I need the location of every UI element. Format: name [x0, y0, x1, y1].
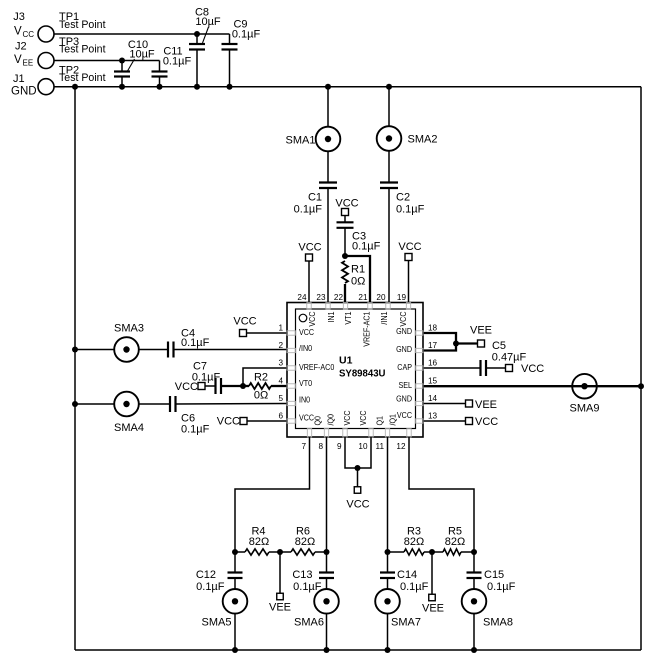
- svg-text:7: 7: [301, 442, 306, 451]
- power VCC at pins 9-10: [354, 487, 361, 494]
- capacitor C1 0.1uF: [327, 151, 329, 182]
- svg-text:GND: GND: [396, 344, 412, 354]
- svg-text:0Ω: 0Ω: [254, 390, 268, 402]
- svg-text:VCC: VCC: [299, 327, 314, 337]
- svg-text:VCC: VCC: [298, 242, 321, 254]
- svg-text:R1: R1: [351, 264, 365, 276]
- wire pin 8 down: [326, 437, 328, 552]
- node pins 17-18 junction: [453, 341, 459, 347]
- svg-text:R2: R2: [254, 372, 268, 384]
- U1 left pin numbers 1-6: [278, 324, 283, 421]
- svg-text:17: 17: [428, 341, 438, 350]
- node R6 right junction: [324, 549, 330, 555]
- svg-text:C13: C13: [292, 569, 312, 581]
- wire C4 to pin 2: [174, 349, 288, 351]
- svg-text:EE: EE: [23, 59, 34, 68]
- svg-text:VCC: VCC: [217, 416, 240, 428]
- resistor R5 82ohm: [443, 549, 461, 555]
- wire pin 12 to R5: [409, 437, 474, 552]
- node R1 top junction: [342, 253, 348, 259]
- op-amp U1 SY89843U body: [287, 303, 423, 438]
- svg-text:VEE: VEE: [475, 399, 497, 411]
- svg-text:VEE: VEE: [269, 602, 291, 614]
- svg-text:V: V: [14, 54, 22, 66]
- wire bottom GND rail: [75, 649, 641, 651]
- svg-text:9: 9: [337, 442, 342, 451]
- svg-text:C2: C2: [396, 192, 410, 204]
- svg-text:IN0: IN0: [299, 395, 310, 405]
- svg-text:0.1µF: 0.1µF: [232, 29, 261, 41]
- svg-text:VCC: VCC: [358, 410, 368, 425]
- svg-text:82Ω: 82Ω: [445, 536, 465, 548]
- svg-text:VCC: VCC: [521, 363, 544, 375]
- svg-text:VREF-AC0: VREF-AC0: [299, 362, 335, 372]
- power VEE below R3-R5: [431, 552, 433, 594]
- svg-text:14: 14: [428, 394, 438, 403]
- svg-text:SMA8: SMA8: [483, 617, 513, 629]
- svg-text:SMA5: SMA5: [202, 617, 232, 629]
- junction SMA9 right rail: [638, 383, 644, 389]
- wire VCC rail: [54, 33, 230, 35]
- svg-text:IN1: IN1: [326, 311, 336, 322]
- power VCC at pin 13: [423, 420, 466, 422]
- capacitor C13 0.1uF: [326, 552, 328, 573]
- wire pin 7 to R4: [235, 437, 310, 552]
- svg-text:C12: C12: [196, 569, 216, 581]
- svg-text:0.1µF: 0.1µF: [181, 424, 210, 436]
- wire C1 to pin 23: [327, 188, 329, 303]
- capacitor C5 0.47uF: [423, 367, 481, 369]
- svg-text:U1: U1: [339, 355, 353, 367]
- svg-text:J3: J3: [13, 11, 25, 23]
- svg-text:Test Point: Test Point: [59, 44, 106, 56]
- svg-text:0.1µF: 0.1µF: [352, 241, 381, 253]
- svg-text:VREF-AC1: VREF-AC1: [362, 311, 372, 347]
- capacitor C14 0.1uF: [387, 552, 389, 573]
- wire pin 11 down: [387, 437, 389, 552]
- resistor R6 82ohm: [291, 549, 315, 555]
- wire left GND rail: [74, 87, 76, 650]
- svg-text:0.1µF: 0.1µF: [487, 581, 516, 593]
- node R3-R5 junction: [429, 549, 435, 555]
- connector SMA8: [473, 578, 475, 589]
- wire pins 9-10 join: [345, 437, 371, 468]
- wire C7 to node: [221, 385, 243, 387]
- svg-text:SMA3: SMA3: [114, 323, 144, 335]
- svg-text:5: 5: [278, 394, 283, 403]
- connector J3 VCC test point TP1: [38, 26, 54, 42]
- svg-text:82Ω: 82Ω: [295, 536, 315, 548]
- svg-text:SMA2: SMA2: [408, 134, 438, 146]
- svg-text:VCC: VCC: [342, 410, 352, 425]
- svg-text:C14: C14: [397, 569, 417, 581]
- wire VEE rail: [54, 60, 160, 62]
- svg-text:20: 20: [376, 293, 386, 302]
- wire C6 to pin 5: [176, 403, 288, 406]
- capacitor C9 0.1uF: [229, 34, 231, 44]
- capacitor C3 0.1uF: [344, 216, 346, 223]
- U1 top pin numbers 24-19: [297, 293, 406, 302]
- svg-text:0.1µF: 0.1µF: [192, 372, 221, 384]
- svg-text:10µF: 10µF: [195, 16, 221, 28]
- capacitor C10 10uF: [119, 58, 125, 64]
- svg-text:Q0: Q0: [313, 416, 323, 426]
- svg-text:SEL: SEL: [399, 380, 413, 390]
- connector J2 VEE test point TP3: [38, 53, 54, 69]
- svg-text:10: 10: [358, 442, 368, 451]
- svg-text:12: 12: [396, 442, 406, 451]
- svg-text:19: 19: [397, 293, 407, 302]
- svg-text:VT1: VT1: [343, 311, 353, 324]
- resistor R3 82ohm: [404, 549, 424, 555]
- svg-text:/Q1: /Q1: [388, 414, 398, 426]
- capacitor C8 10uF: [194, 31, 200, 37]
- svg-text:0.1µF: 0.1µF: [196, 581, 225, 593]
- svg-text:4: 4: [278, 377, 283, 386]
- svg-text:VEE: VEE: [470, 325, 492, 337]
- capacitor C6 0.1uF: [139, 403, 170, 405]
- wire node to pin 3: [243, 368, 287, 386]
- U1 bottom pin numbers 7-12: [301, 442, 406, 451]
- svg-text:0.1µF: 0.1µF: [400, 581, 429, 593]
- node R2 junction: [240, 383, 246, 389]
- svg-text:VCC: VCC: [307, 312, 317, 327]
- wire C3 to node: [344, 228, 346, 256]
- junction left rail top: [72, 84, 78, 90]
- svg-text:VCC: VCC: [398, 241, 421, 253]
- svg-text:CC: CC: [23, 30, 35, 39]
- svg-text:VT0: VT0: [299, 378, 312, 388]
- connector SMA3: [72, 347, 78, 353]
- svg-text:VCC: VCC: [346, 499, 369, 511]
- svg-text:0.1µF: 0.1µF: [396, 204, 425, 216]
- svg-text:/IN1: /IN1: [379, 311, 389, 324]
- svg-text:SMA1: SMA1: [286, 135, 316, 147]
- svg-text:22: 22: [334, 293, 344, 302]
- connector SMA6: [326, 578, 328, 589]
- svg-text:82Ω: 82Ω: [249, 536, 269, 548]
- node R3 left junction: [385, 549, 391, 555]
- svg-text:SMA9: SMA9: [570, 403, 600, 415]
- svg-text:J1: J1: [13, 73, 25, 85]
- connector SMA5: [234, 578, 236, 589]
- svg-text:GND: GND: [396, 394, 412, 404]
- svg-text:10µF: 10µF: [129, 49, 155, 61]
- power VEE at pin 14: [423, 403, 466, 405]
- svg-text:VCC: VCC: [233, 316, 256, 328]
- capacitor C15 0.1uF: [473, 552, 475, 573]
- connector SMA4: [72, 401, 78, 407]
- svg-text:0.47µF: 0.47µF: [492, 352, 527, 364]
- svg-text:3: 3: [278, 359, 283, 368]
- svg-text:15: 15: [428, 377, 438, 386]
- svg-text:16: 16: [428, 359, 438, 368]
- svg-text:1: 1: [278, 324, 283, 333]
- svg-text:VCC: VCC: [475, 416, 498, 428]
- connector SMA2: [386, 84, 392, 90]
- resistor R1 0ohm: [342, 261, 348, 283]
- svg-text:23: 23: [316, 293, 326, 302]
- svg-text:Test Point: Test Point: [59, 72, 106, 84]
- node R5 right junction: [471, 549, 477, 555]
- connector SMA1: [325, 84, 331, 90]
- svg-text:SMA4: SMA4: [114, 422, 144, 434]
- svg-text:VCC: VCC: [335, 198, 358, 210]
- svg-text:SMA7: SMA7: [391, 617, 421, 629]
- svg-text:GND: GND: [11, 86, 37, 98]
- svg-text:21: 21: [358, 293, 368, 302]
- svg-text:24: 24: [297, 293, 307, 302]
- capacitor C2 0.1uF: [388, 151, 390, 183]
- svg-text:0.1µF: 0.1µF: [294, 204, 323, 216]
- wire GND top rail: [54, 86, 641, 88]
- svg-text:CAP: CAP: [397, 362, 412, 372]
- svg-text:VCC: VCC: [397, 410, 412, 420]
- wire pins 18-17 loop: [423, 333, 456, 351]
- svg-text:C1: C1: [308, 192, 322, 204]
- connector SMA7: [387, 578, 389, 589]
- svg-text:0.1µF: 0.1µF: [293, 581, 322, 593]
- power VEE below R4-R6: [279, 552, 281, 593]
- svg-text:Q1: Q1: [375, 416, 385, 426]
- resistor R2 0ohm: [249, 383, 271, 389]
- capacitor C7 0.1uF: [205, 385, 216, 387]
- resistor R4 82ohm: [245, 549, 269, 555]
- svg-text:0Ω: 0Ω: [351, 276, 365, 288]
- capacitor C11 0.1uF: [159, 61, 161, 72]
- capacitor C4 0.1uF: [139, 349, 168, 351]
- svg-text:V: V: [14, 26, 22, 38]
- wire right GND rail: [640, 87, 642, 650]
- svg-text:82Ω: 82Ω: [404, 536, 424, 548]
- svg-text:0.1µF: 0.1µF: [181, 337, 210, 349]
- svg-text:/IN0: /IN0: [299, 343, 312, 353]
- connector J1 GND test point TP2: [38, 79, 54, 95]
- svg-text:J2: J2: [15, 41, 27, 53]
- connector SMA9: [572, 374, 597, 399]
- svg-text:VEE: VEE: [422, 603, 444, 615]
- svg-text:13: 13: [428, 412, 438, 421]
- svg-text:18: 18: [428, 324, 438, 333]
- svg-text:Test Point: Test Point: [59, 19, 106, 31]
- svg-text:6: 6: [278, 412, 283, 421]
- svg-text:/Q0: /Q0: [326, 414, 336, 426]
- svg-text:VCC: VCC: [398, 312, 408, 327]
- svg-text:11: 11: [376, 442, 385, 451]
- wire pin 15 to SMA9: [423, 385, 641, 387]
- svg-text:C15: C15: [484, 569, 504, 581]
- svg-text:0.1µF: 0.1µF: [163, 56, 192, 68]
- svg-text:C5: C5: [492, 340, 506, 352]
- capacitor C12 0.1uF: [234, 552, 236, 573]
- node R4 left junction: [232, 549, 238, 555]
- svg-text:SY89843U: SY89843U: [339, 368, 386, 380]
- wire C2 to pin 20: [388, 188, 390, 303]
- wire node to pin 21: [345, 256, 370, 303]
- svg-text:SMA6: SMA6: [294, 617, 324, 629]
- U1 right pin numbers 18-13: [428, 324, 438, 421]
- power VCC at C5: [506, 365, 513, 372]
- svg-text:2: 2: [278, 341, 283, 350]
- node R4-R6 junction: [277, 549, 283, 555]
- svg-text:8: 8: [318, 442, 323, 451]
- U1 pin 1 indicator: [299, 314, 307, 322]
